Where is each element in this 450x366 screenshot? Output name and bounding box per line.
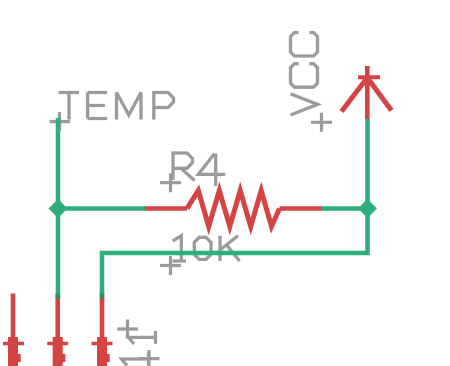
origin cross of pin label 1 — [117, 320, 138, 339]
pin label 2 (rotated, clipped at bottom) — [122, 353, 149, 366]
pin 1 (connector pin, bottom left) — [3, 294, 24, 366]
resistor R4 — [144, 191, 322, 227]
right barb — [369, 80, 392, 111]
zigzag body — [187, 191, 280, 227]
shaft — [365, 66, 370, 119]
label VCC (supply name, rotated 90 CCW) — [291, 33, 318, 116]
pin 2 (connector pin, middle) — [47, 294, 68, 366]
wire overlap pin 2 (dark) — [56, 294, 61, 299]
junction node left — [49, 199, 68, 218]
label TEMP (net name) — [59, 93, 174, 120]
supply symbol VCC (arrow) — [342, 66, 392, 119]
junction node right — [358, 199, 377, 218]
wire resistor to junction-right — [322, 206, 368, 211]
crossbar — [358, 75, 380, 79]
label 10K (resistor value) — [173, 236, 240, 261]
wire overlap pin 3 (dark) — [100, 294, 105, 299]
origin cross of pin label 2 — [139, 350, 160, 366]
wire VCC vertical + bottom horizontal + to pin 3 — [102, 119, 368, 294]
label R4 (resistor name) — [173, 153, 225, 186]
origin cross of TEMP text — [50, 112, 71, 131]
wire junction-left to resistor — [58, 206, 145, 211]
origin cross of R4 text — [160, 173, 181, 192]
pin 3 (connector pin, right) — [92, 294, 113, 366]
left barb — [342, 80, 366, 112]
origin cross of VCC text — [311, 113, 332, 132]
right lead — [280, 206, 322, 211]
origin cross of 10K text — [160, 256, 181, 275]
pin label 1 (rotated) — [129, 331, 156, 344]
wire TEMP vertical (net TEMP) — [56, 118, 61, 294]
left lead — [144, 206, 187, 211]
